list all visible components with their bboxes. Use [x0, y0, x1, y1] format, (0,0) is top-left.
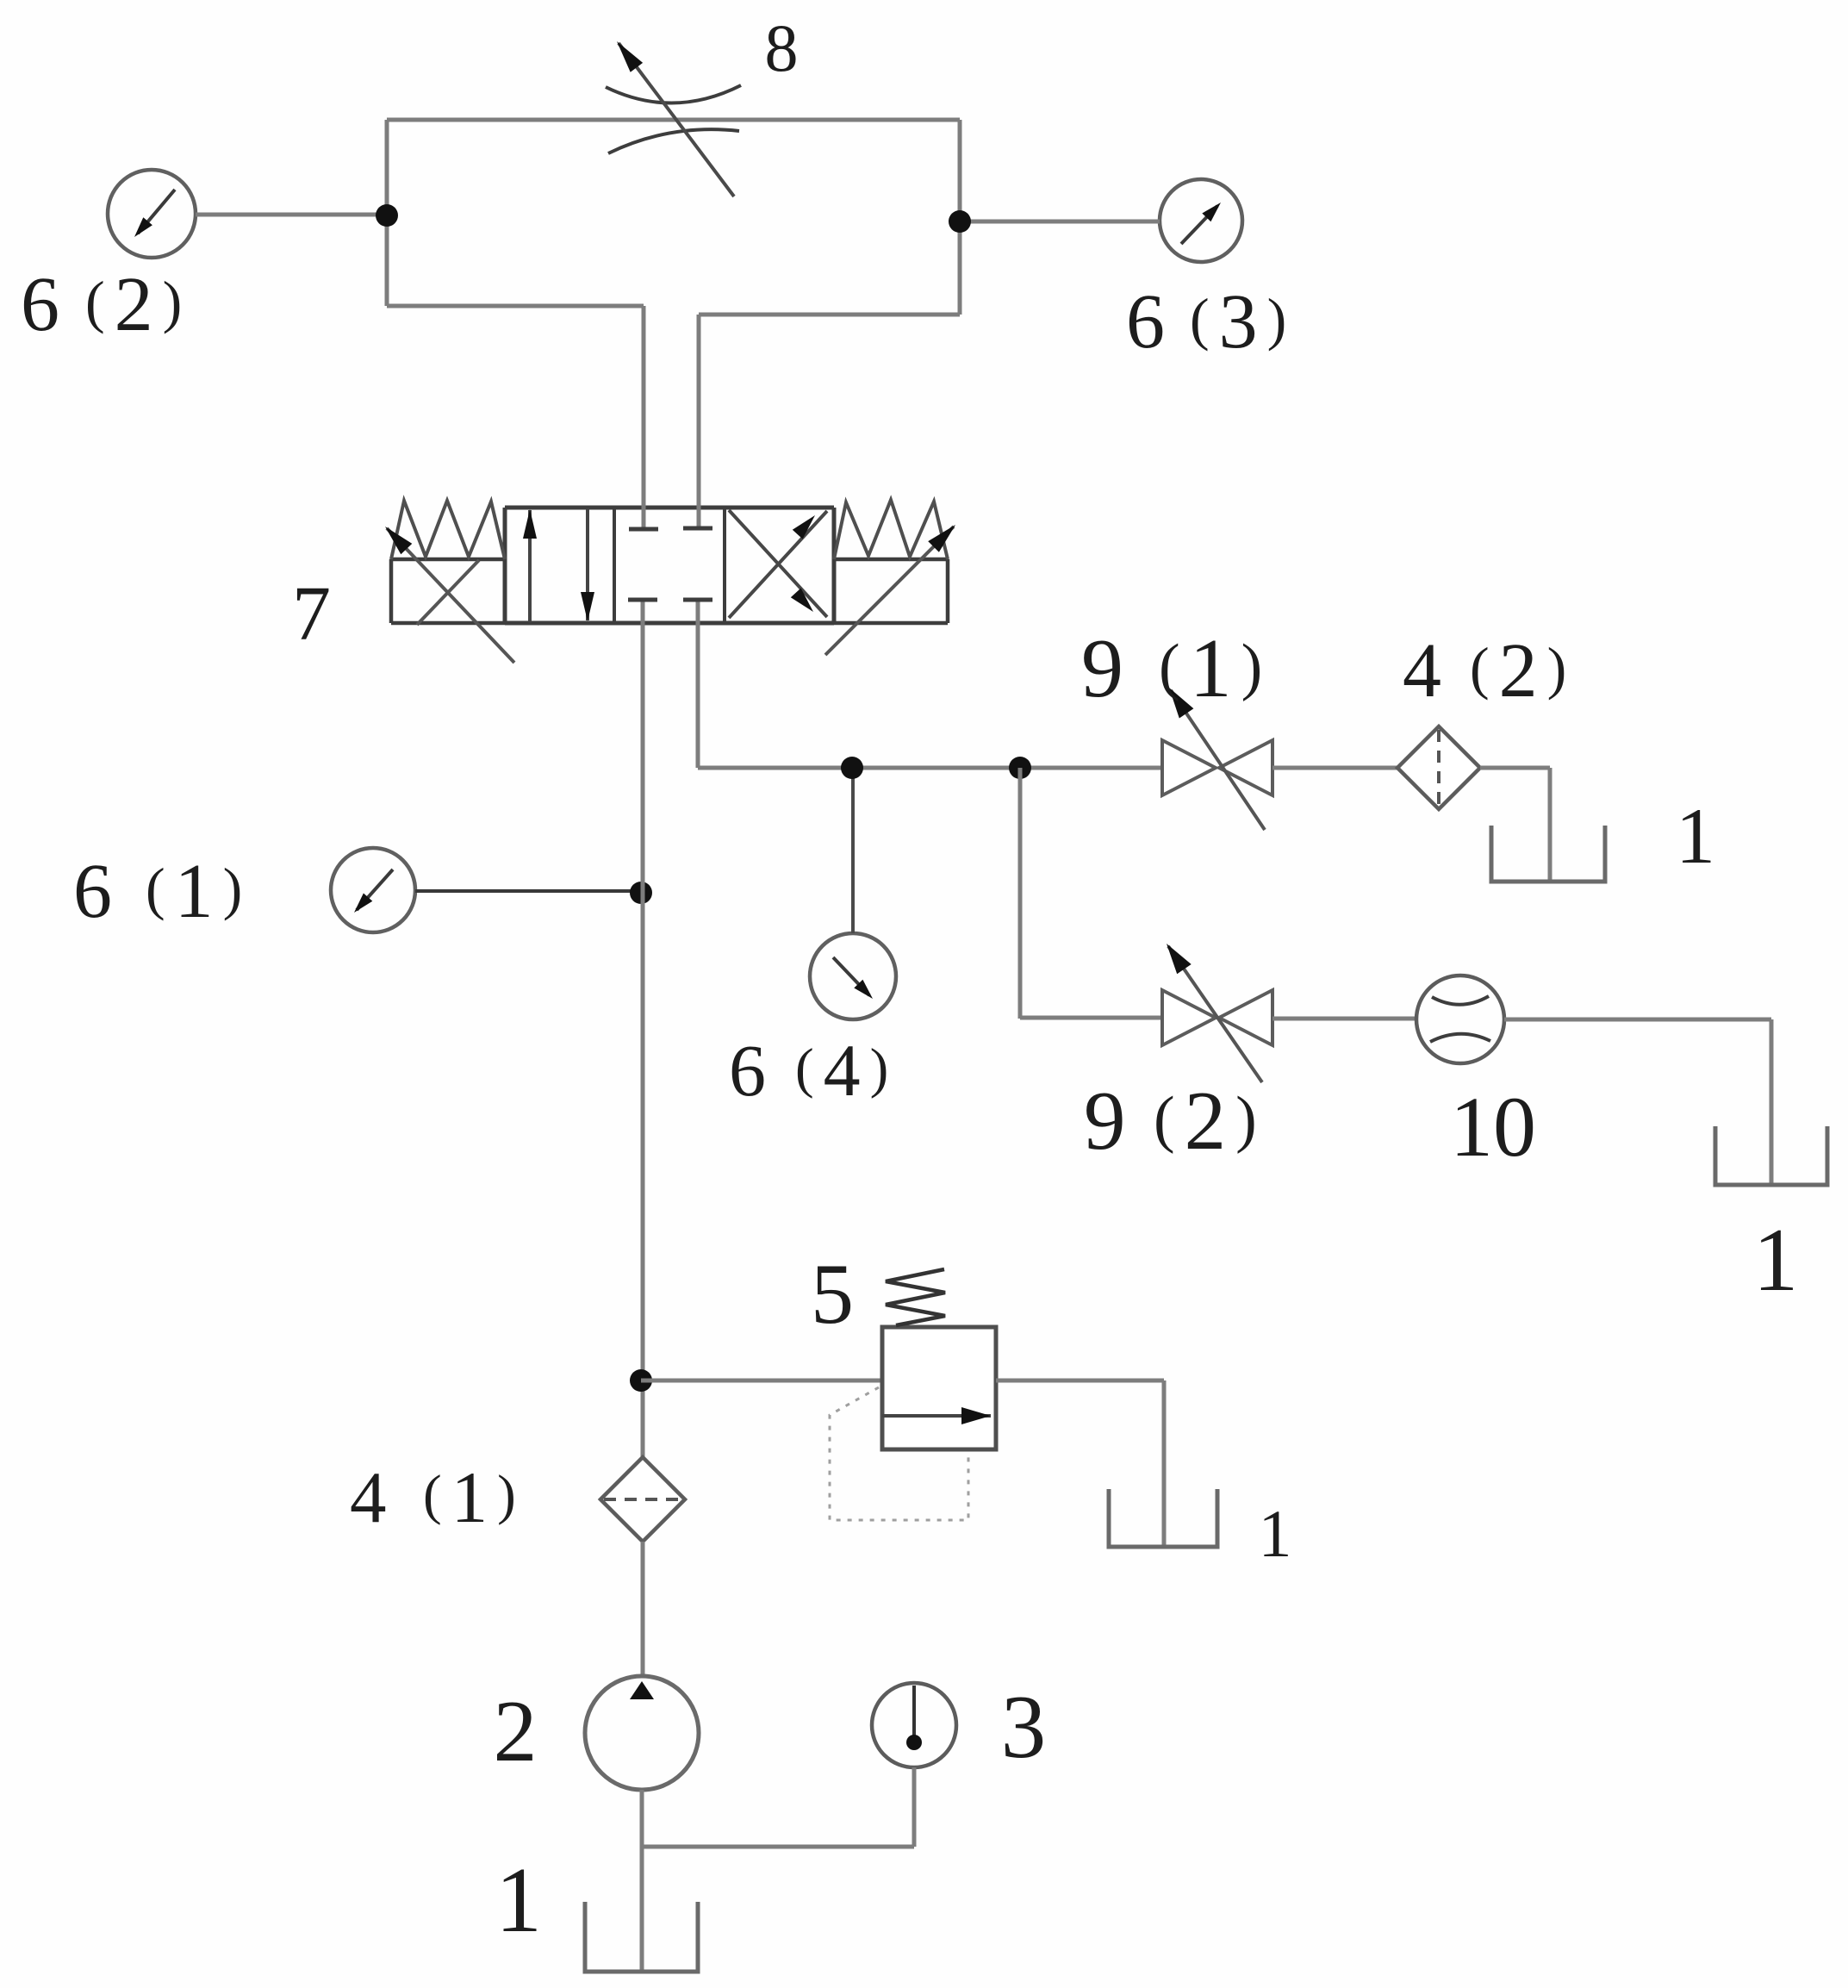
svg-text:3: 3 — [1001, 1676, 1047, 1777]
svg-text:10: 10 — [1450, 1079, 1536, 1175]
svg-text:): ) — [1241, 632, 1263, 702]
svg-text:6: 6 — [1126, 279, 1165, 365]
svg-text:3: 3 — [1219, 279, 1258, 365]
svg-text:1: 1 — [495, 1849, 542, 1952]
svg-text:6: 6 — [73, 849, 112, 934]
svg-text:(: ( — [85, 269, 105, 334]
svg-text:1: 1 — [1259, 1496, 1292, 1571]
svg-text:): ) — [223, 856, 243, 921]
svg-text:(: ( — [146, 856, 165, 921]
svg-text:4: 4 — [824, 1029, 861, 1112]
svg-text:): ) — [1267, 286, 1287, 352]
svg-text:5: 5 — [811, 1246, 854, 1342]
svg-text:8: 8 — [765, 10, 799, 85]
svg-text:1: 1 — [1190, 622, 1232, 715]
svg-text:(: ( — [1470, 635, 1490, 701]
svg-text:2: 2 — [494, 1683, 538, 1780]
svg-text:4: 4 — [1403, 628, 1441, 714]
svg-text:7: 7 — [292, 571, 331, 657]
svg-text:6: 6 — [729, 1029, 766, 1112]
svg-text:(: ( — [795, 1038, 814, 1100]
svg-text:2: 2 — [1185, 1075, 1227, 1167]
svg-text:2: 2 — [115, 262, 153, 347]
svg-text:(: ( — [423, 1464, 442, 1526]
svg-text:9: 9 — [1084, 1075, 1126, 1167]
svg-text:(: ( — [1190, 286, 1210, 352]
svg-text:): ) — [1235, 1084, 1257, 1155]
svg-text:6: 6 — [21, 262, 59, 347]
svg-text:(: ( — [1159, 632, 1180, 702]
svg-text:9: 9 — [1081, 622, 1123, 715]
svg-text:): ) — [870, 1038, 889, 1100]
svg-text:1: 1 — [451, 1457, 488, 1538]
svg-text:1: 1 — [1676, 792, 1715, 880]
svg-text:4: 4 — [350, 1457, 387, 1538]
svg-text:): ) — [1547, 635, 1567, 701]
svg-text:2: 2 — [1499, 628, 1538, 714]
svg-text:1: 1 — [1753, 1209, 1799, 1310]
svg-text:): ) — [163, 269, 183, 334]
svg-text:(: ( — [1154, 1084, 1175, 1155]
svg-text:): ) — [497, 1464, 516, 1526]
svg-text:1: 1 — [175, 849, 214, 934]
